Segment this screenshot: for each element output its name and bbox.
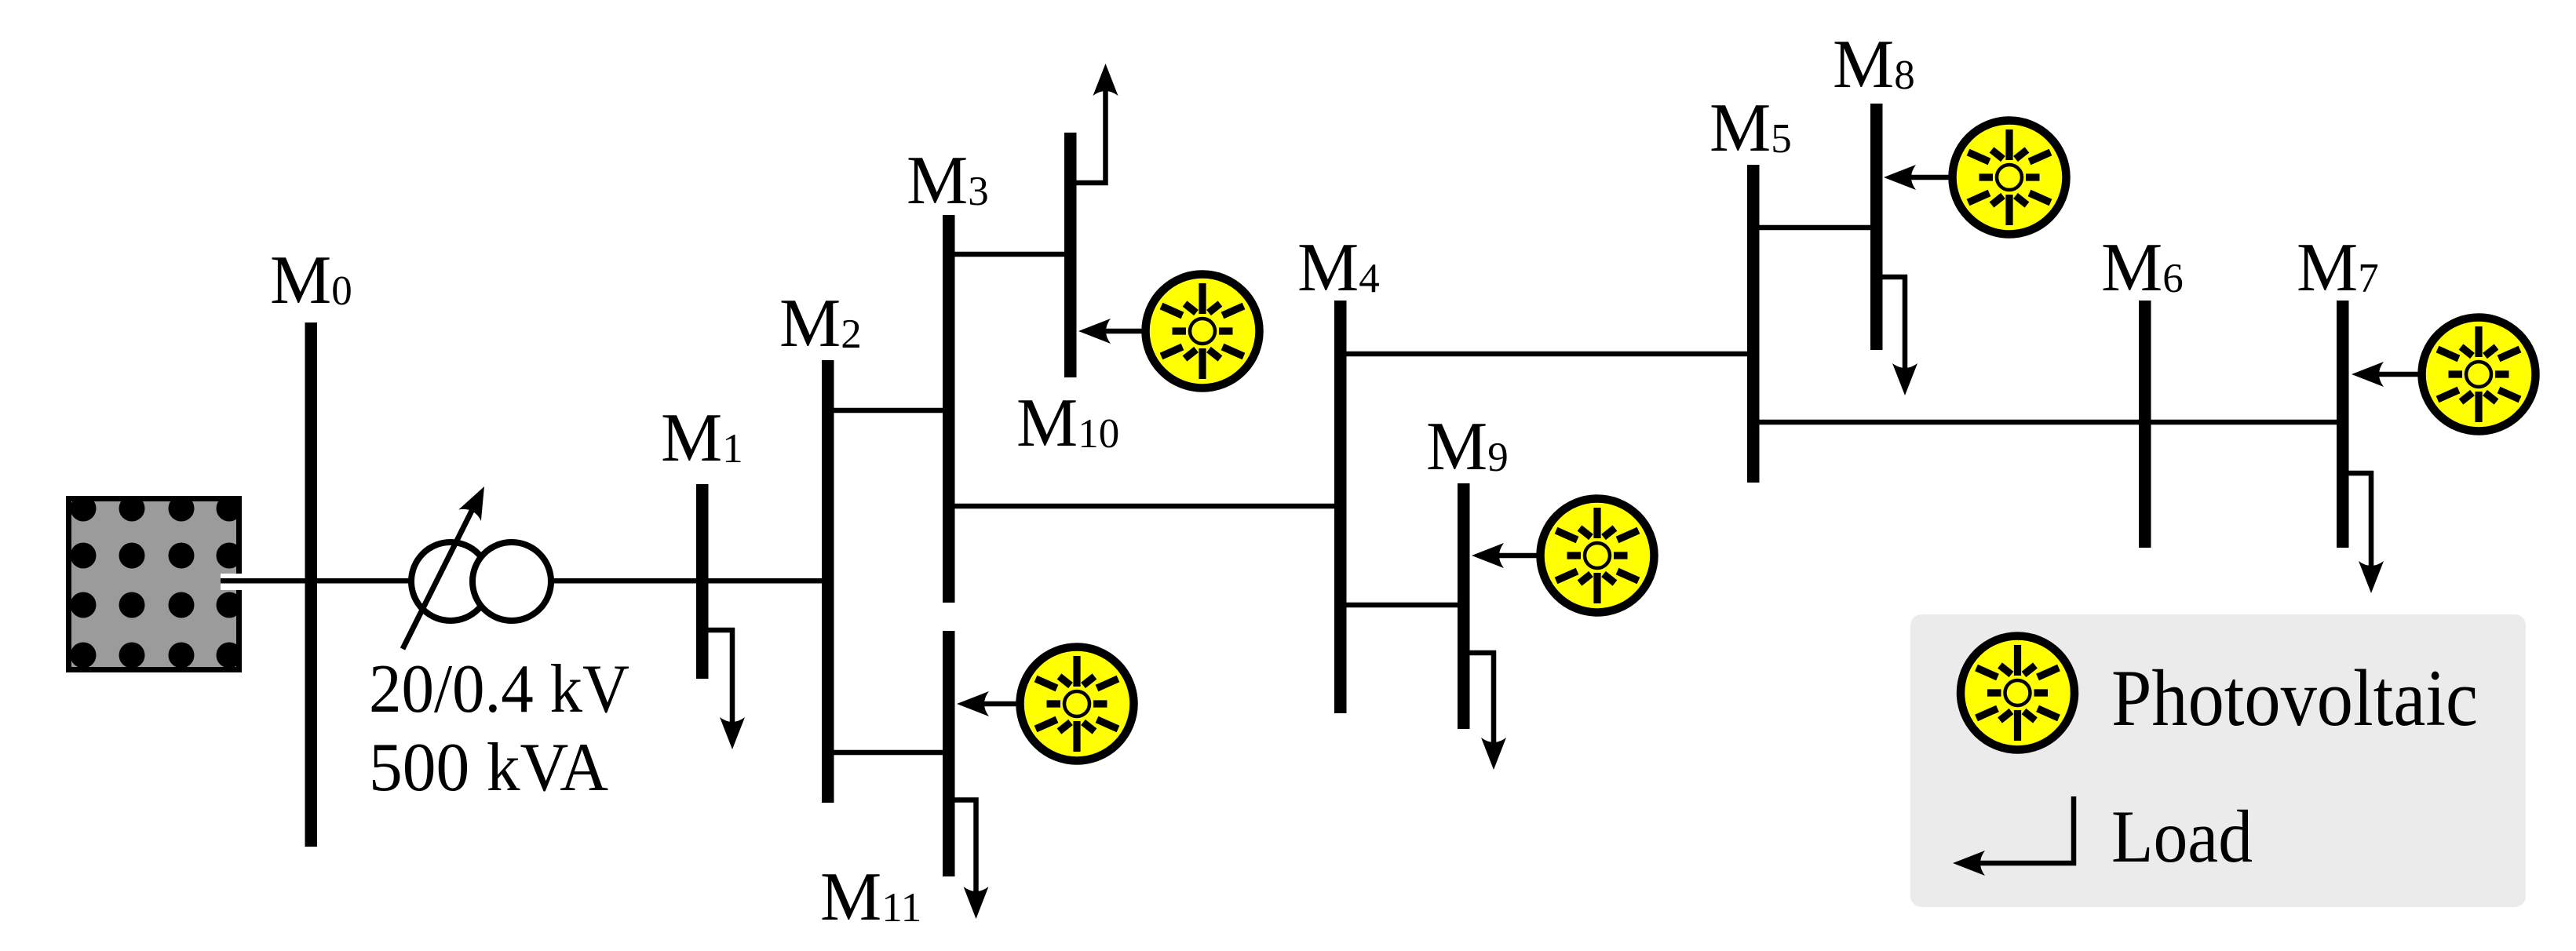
svg-text:M4: M4	[1297, 230, 1380, 306]
bus M1	[696, 484, 709, 679]
bus M2	[822, 360, 834, 803]
svg-text:Photovoltaic: Photovoltaic	[2111, 654, 2478, 743]
photovoltaic at M11	[957, 647, 1134, 761]
external grid (utility source) square	[66, 496, 243, 673]
legend load symbol	[1953, 796, 2074, 876]
wire: external grid to bus M2 (main feeder)	[228, 578, 828, 584]
svg-text:Load: Load	[2111, 795, 2253, 878]
wire M5 to M8	[1753, 225, 1877, 231]
photovoltaic at M7	[2352, 318, 2536, 432]
svg-text:M6: M6	[2101, 230, 2184, 306]
wire M4 to M5	[1341, 352, 1753, 357]
export arrow at M10	[1077, 64, 1118, 183]
load at M11	[955, 800, 989, 920]
svg-text:M10: M10	[1016, 385, 1119, 461]
bus M5	[1747, 165, 1760, 483]
photovoltaic at M8	[1884, 121, 2067, 235]
bus M9	[1458, 483, 1470, 729]
load at M7	[2349, 473, 2384, 593]
wire M2 to M11	[827, 750, 949, 756]
legend photovoltaic icon	[1961, 636, 2074, 750]
wire M2 to M3	[827, 408, 949, 414]
photovoltaic at M10	[1078, 275, 1260, 388]
bus M6	[2139, 301, 2151, 548]
svg-text:M11: M11	[820, 859, 921, 935]
bus M11	[943, 631, 955, 876]
svg-text:M0: M0	[270, 242, 352, 319]
bus M7	[2337, 301, 2349, 548]
svg-text:M2: M2	[779, 286, 862, 362]
svg-text:M8: M8	[1833, 27, 1915, 103]
wire M3 to M4	[949, 504, 1341, 509]
bus M10	[1064, 133, 1077, 377]
load at M1	[708, 630, 745, 749]
photovoltaic at M9	[1472, 499, 1655, 613]
load at M9	[1470, 653, 1507, 770]
bus M3	[943, 215, 955, 603]
svg-text:M9: M9	[1426, 409, 1509, 485]
bus M8	[1870, 104, 1883, 350]
svg-text:M3: M3	[907, 143, 989, 219]
svg-text:M7: M7	[2297, 230, 2379, 306]
bus M4	[1334, 301, 1347, 713]
svg-text:500 kVA: 500 kVA	[369, 730, 608, 806]
wire M5 to M7 (main lv feeder)	[1753, 420, 2342, 425]
bus M0	[305, 322, 318, 847]
svg-text:20/0.4 kV: 20/0.4 kV	[369, 651, 629, 727]
svg-text:M1: M1	[661, 400, 743, 476]
svg-text:M5: M5	[1709, 90, 1792, 166]
legend box	[1910, 614, 2526, 907]
wire M4 to M9	[1341, 603, 1464, 608]
transformer T1 20/0.4 kV	[403, 481, 551, 649]
load at M8	[1883, 277, 1918, 395]
wire M3 to M10	[949, 252, 1071, 257]
